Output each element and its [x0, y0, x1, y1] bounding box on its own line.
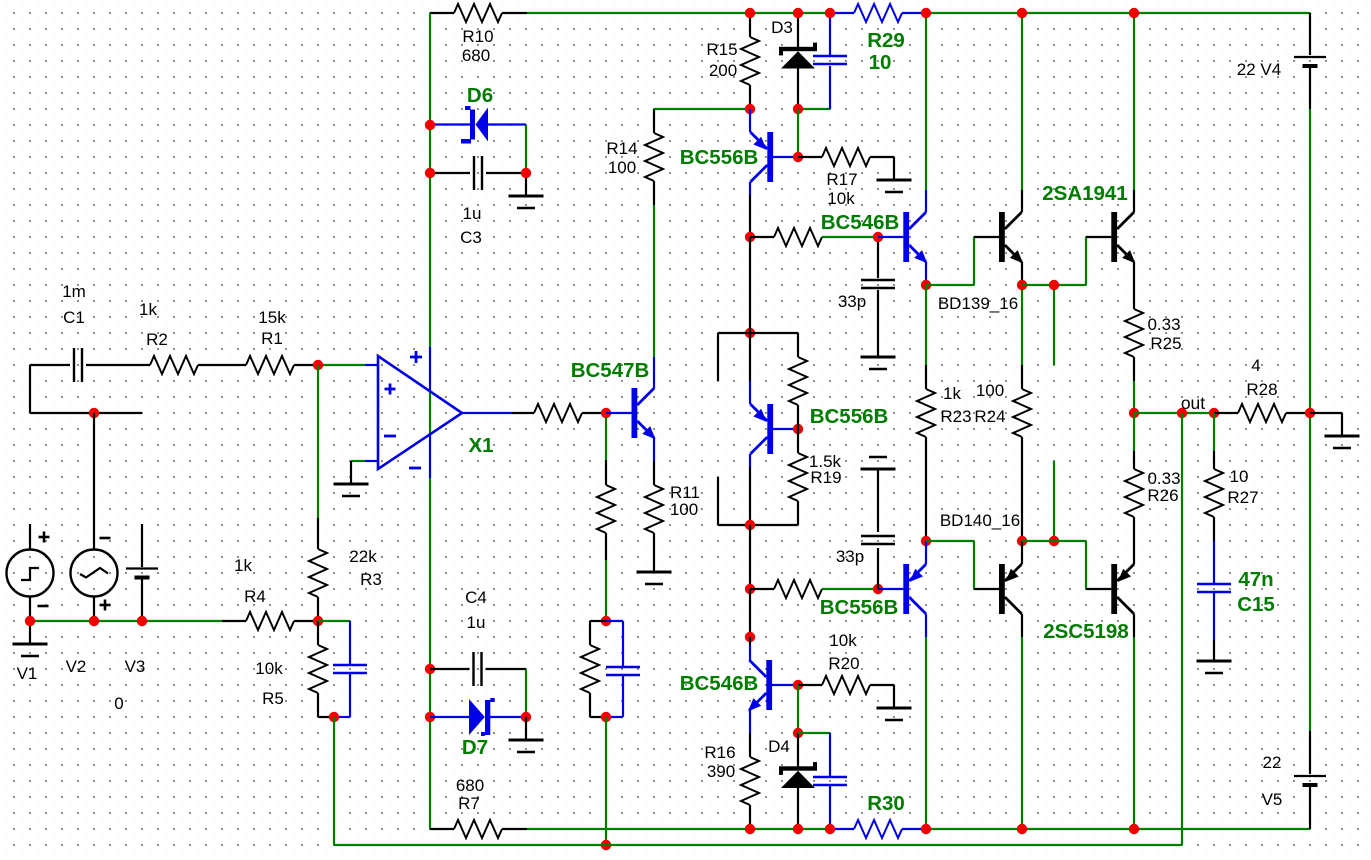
op-amp internal + marking: [385, 384, 396, 395]
wire R20 to ground: [893, 685, 895, 708]
wire R15 top lead: [749, 13, 751, 37]
svg-text:X1: X1: [468, 434, 493, 457]
wire D6 cathode lead: [430, 123, 470, 125]
resistor R10: [454, 4, 502, 22]
junction R15 bottom: [745, 104, 755, 114]
svg-text:C3: C3: [460, 228, 482, 247]
op-amp input pin +: [365, 364, 378, 366]
svg-text:33p: 33p: [838, 292, 866, 311]
wire R29 right lead: [902, 12, 926, 14]
wire top rail to V4: [926, 12, 1310, 14]
wire R26 top lead: [1133, 451, 1135, 469]
wire cap(D3) bottom lead: [829, 66, 831, 109]
junction bias stub lower: [1049, 536, 1059, 546]
svg-text:R29: R29: [867, 29, 905, 52]
svg-text:15k: 15k: [258, 308, 286, 327]
op-amp supply - marking: [409, 467, 421, 470]
wire feedback line upper: [429, 13, 431, 347]
svg-text:2SC5198: 2SC5198: [1043, 620, 1128, 643]
wire op-amp output: [462, 412, 512, 414]
wire R11 top lead: [653, 461, 655, 485]
wire BD140 base riser: [973, 541, 975, 589]
wire resistor branch top: [589, 621, 591, 645]
wire bias stub upper: [1053, 285, 1055, 365]
svg-text:BC547B: BC547B: [571, 359, 650, 382]
wire BD140 emitter lead: [1021, 541, 1023, 564]
wire bracket top: [718, 332, 798, 334]
wire R19 lower bottom lead: [797, 501, 799, 525]
wire R26 to 2SC5198: [1133, 517, 1135, 564]
wire to R/C parallel block: [605, 560, 607, 621]
junction C4 left: [425, 664, 435, 674]
wire -22V rail right: [926, 828, 1310, 830]
wire BC547B emitter lead: [653, 438, 655, 461]
wire top +22V rail: [527, 12, 830, 14]
junction cap(D4)/-rail: [825, 824, 835, 834]
wire R24 bottom lead: [1021, 437, 1023, 541]
wire resistor to BC546B base: [822, 236, 878, 238]
ground (33p lower, inverted): [861, 457, 896, 469]
junction BC546B lower collector: [745, 632, 755, 642]
svg-text:R14: R14: [606, 139, 637, 158]
junction R24 bottom: [1017, 536, 1027, 546]
wire BC546B upper base lead: [878, 236, 903, 238]
capacitor (parallel with D4): [813, 777, 847, 785]
svg-text:R23: R23: [940, 407, 971, 426]
svg-text:V2: V2: [66, 657, 87, 676]
svg-text:1k: 1k: [234, 556, 252, 575]
wire BC547B base lead: [606, 412, 632, 414]
svg-text:R3: R3: [360, 570, 382, 589]
wire cap branch to node: [606, 716, 623, 718]
junction in+ node: [313, 360, 323, 370]
wire cap(D3) top lead: [829, 13, 831, 55]
wire C3 right lead: [486, 172, 526, 174]
svg-text:D6: D6: [467, 84, 493, 107]
wire bracket bottom: [718, 524, 798, 526]
svg-text:1u: 1u: [463, 204, 482, 223]
svg-text:1m: 1m: [62, 282, 86, 301]
resistor R24: [1013, 389, 1031, 437]
svg-text:R2: R2: [146, 330, 168, 349]
op-amp input pin -: [365, 460, 378, 462]
op-amp positive supply pin: [429, 347, 431, 390]
wire R7 left lead: [430, 828, 454, 830]
diode D4 (zener): [779, 762, 817, 788]
wire D4 cathode lead: [797, 733, 799, 767]
resistor R29: [854, 4, 902, 22]
capacitor (parallel with D3): [813, 56, 847, 64]
svg-text:R28: R28: [1246, 380, 1277, 399]
junction BC556B upper base: [793, 152, 803, 162]
capacitor 33p (upper): [861, 280, 895, 288]
svg-text:R26: R26: [1147, 486, 1178, 505]
junction 2SC5198/-rail: [1129, 824, 1139, 834]
junction BD140/-rail: [1017, 824, 1027, 834]
wire to cap branch: [606, 620, 623, 622]
svg-text:100: 100: [976, 381, 1004, 400]
wire BC556B lower base lead: [878, 588, 903, 590]
wire cap(R5) top lead: [349, 621, 351, 665]
resistor R11: [645, 485, 663, 533]
junction V3 output: [137, 616, 147, 626]
wire emitter node down: [925, 285, 927, 365]
junction BC546B lower base: [793, 680, 803, 690]
wire R15 bottom lead: [749, 85, 751, 109]
resistor R23: [917, 389, 935, 437]
svg-text:100: 100: [608, 158, 636, 177]
wire BD139 collector lead: [1021, 190, 1023, 212]
junction BC546B upper base: [873, 232, 883, 242]
capacitor (parallel with R5): [333, 665, 367, 673]
wire R5 bottom lead: [317, 693, 319, 717]
wire R20 left lead: [798, 684, 822, 686]
junction D3 top: [793, 8, 803, 18]
wire BD139 base riser: [973, 237, 975, 285]
wire ground net to R4: [30, 620, 222, 622]
transistor BC546B (lower): [748, 660, 772, 711]
resistor R19 (lower half): [789, 453, 807, 501]
svg-text:R25: R25: [1150, 334, 1181, 353]
wire R16 bottom lead: [749, 805, 751, 829]
wire collector down: [749, 195, 751, 237]
resistor R14: [645, 133, 663, 181]
wire BC556B middle collector lead: [749, 454, 751, 467]
V1 minus sign: [38, 605, 49, 608]
diode D3 (zener): [779, 43, 817, 69]
wire cap(R5) to junction: [334, 716, 350, 718]
wire to BC546B lower: [749, 589, 751, 637]
ground (33p upper): [861, 357, 896, 369]
svg-text:V3: V3: [125, 657, 146, 676]
junction C3 right: [521, 168, 531, 178]
wire BD140 collector to -rail: [1021, 637, 1023, 829]
transistor 2SC5198: [1111, 564, 1134, 614]
wire R28 right lead: [1286, 412, 1310, 414]
wire BD139 emitter lead: [1021, 262, 1023, 285]
wire to base resistor: [512, 412, 534, 414]
wire in+ node down to R3: [317, 365, 319, 518]
svg-text:V5: V5: [1262, 790, 1283, 809]
junction R15 top: [745, 8, 755, 18]
transistor BD139_16: [999, 212, 1023, 263]
svg-text:2SA1941: 2SA1941: [1042, 182, 1127, 205]
svg-text:R10: R10: [462, 27, 493, 46]
wire 2SC5198 base lead: [1086, 588, 1111, 590]
wire cap branch bottom: [622, 675, 624, 717]
wire 33p upper lead: [877, 242, 879, 278]
svg-text:200: 200: [709, 61, 737, 80]
wire R5 top lead: [317, 621, 319, 645]
junction V2 top node: [89, 408, 99, 418]
transistor BC546B (upper): [903, 212, 927, 263]
junction V2 output: [89, 616, 99, 626]
resistor R3: [309, 549, 327, 597]
wire base node to D4: [797, 685, 799, 733]
wire op-amp minus input: [351, 460, 365, 462]
wire 2SC5198 collector to -rail: [1133, 637, 1135, 829]
wire BC546B upper emitter lead: [925, 262, 927, 285]
junction 2SA1941 collector rail: [1129, 8, 1139, 18]
svg-text:1k: 1k: [139, 300, 157, 319]
wire V4 bottom lead: [1309, 68, 1311, 109]
transistor BD140_16: [999, 564, 1022, 614]
wire R17 right lead: [870, 156, 894, 158]
junction D4/-rail: [793, 824, 803, 834]
wire collector to +rail: [925, 13, 927, 190]
junction driver node upper: [745, 232, 755, 242]
capacitor (parallel block): [606, 667, 640, 675]
wire R17 to ground: [893, 157, 895, 180]
diode D6 (zener): [461, 106, 488, 144]
transistor BC556B (lower): [903, 564, 926, 614]
svg-text:C4: C4: [465, 588, 487, 607]
wire R7 right lead: [502, 828, 527, 830]
resistor R25: [1125, 309, 1143, 357]
wire +rail to V4: [1309, 13, 1311, 55]
junction BD139 collector rail: [1017, 8, 1027, 18]
wire down to lower rail: [605, 717, 607, 845]
wire -22V rail left: [527, 828, 830, 830]
wire R27 bottom lead: [1213, 517, 1215, 541]
wire R25 bottom lead: [1133, 357, 1135, 381]
svg-text:out: out: [1181, 393, 1205, 413]
resistor (lower driver): [774, 580, 822, 598]
svg-text:BD140_16: BD140_16: [940, 511, 1020, 530]
wire resistor left lead (lower): [750, 588, 774, 590]
capacitor C1: [74, 348, 82, 382]
capacitor C15: [1197, 584, 1231, 592]
capacitor C3: [474, 156, 482, 190]
transistor 2SA1941: [1111, 212, 1135, 263]
wire BC556B middle emitter lead: [749, 381, 751, 404]
resistor R1: [246, 356, 294, 374]
wire R10 right lead: [502, 12, 527, 14]
wire C15 to ground: [1213, 640, 1215, 661]
junction BC547B base node: [601, 408, 611, 418]
ground (V1): [13, 644, 48, 656]
wire base node down: [605, 418, 607, 460]
wire R4 right lead: [294, 620, 318, 622]
wire C4 left lead: [430, 668, 470, 670]
wire R2 to R1: [198, 364, 246, 366]
junction Vbe multiplier bottom: [745, 520, 755, 530]
wire R24 node to stub: [1022, 540, 1054, 542]
junction D4 top: [793, 728, 803, 738]
resistor R26: [1125, 469, 1143, 517]
svg-text:BC556B: BC556B: [820, 596, 899, 619]
wire to BD140 base: [926, 540, 974, 542]
svg-text:BC556B: BC556B: [680, 146, 759, 169]
ground (C15): [1197, 661, 1232, 673]
svg-text:R19: R19: [810, 468, 841, 487]
ground (R20): [877, 708, 912, 720]
wire V2 bottom lead: [93, 596, 95, 621]
ground (R11): [637, 572, 672, 584]
capacitor C4: [474, 652, 482, 686]
junction BC556B middle base: [793, 424, 803, 434]
wire out to R26: [1133, 413, 1135, 451]
resistor R5: [309, 645, 327, 693]
V2 minus sign: [100, 537, 111, 540]
resistor R15: [741, 37, 759, 85]
wire R14 to R15 node: [654, 108, 750, 110]
svg-text:BC546B: BC546B: [680, 672, 759, 695]
wire to resistor branch: [590, 620, 606, 622]
resistor R2: [150, 356, 198, 374]
wire R14 top lead: [653, 109, 655, 133]
wire out node: [1134, 412, 1214, 414]
wire D3 anode lead: [797, 68, 799, 109]
wire D4 anode lead: [797, 788, 799, 829]
wire C3 left lead: [430, 172, 470, 174]
svg-text:100: 100: [670, 500, 698, 519]
resistor R27: [1205, 469, 1223, 517]
junction out/R27: [1209, 408, 1219, 418]
wire V4-V5 midrail: [1309, 109, 1311, 731]
wire D7 to ground: [525, 717, 527, 740]
svg-text:BC556B: BC556B: [810, 405, 889, 428]
resistor (parallel block): [581, 645, 599, 693]
ground (R28): [1325, 436, 1360, 448]
wire R23 top lead: [925, 365, 927, 389]
wire R16 top lead: [749, 733, 751, 757]
ground (D7): [509, 740, 544, 752]
wire feedback line through op-amp: [429, 390, 431, 433]
junction BD139 emitter: [1017, 280, 1027, 290]
wire 2SA1941 base lead: [1086, 236, 1111, 238]
wire R4 left lead: [222, 620, 246, 622]
junction R28/midrail: [1305, 408, 1315, 418]
junction cap(D3) top: [825, 8, 835, 18]
battery V5: [1294, 776, 1326, 785]
svg-text:680: 680: [456, 776, 484, 795]
junction BC556B/-rail: [921, 824, 931, 834]
svg-text:R15: R15: [706, 40, 737, 59]
svg-text:4: 4: [1251, 356, 1260, 375]
wire 2SC5198 collector lead: [1133, 614, 1135, 637]
svg-text:390: 390: [707, 762, 735, 781]
wire C15 top lead: [1213, 541, 1215, 584]
svg-text:10k: 10k: [255, 659, 283, 678]
junction D7 cathode: [521, 712, 531, 722]
wire R24 top lead: [1021, 365, 1023, 389]
junction collector/+rail: [921, 8, 931, 18]
wire BC556B middle base lead: [773, 428, 798, 430]
wire collector stub: [749, 637, 751, 645]
svg-text:22 V4: 22 V4: [1237, 60, 1281, 79]
svg-text:R30: R30: [867, 792, 905, 815]
wire cap(D4) bottom lead: [829, 786, 831, 829]
wire resistor bottom lead: [605, 533, 607, 560]
wire 33p to ground: [877, 290, 879, 357]
wire resistor left lead: [750, 236, 774, 238]
resistor R28: [1238, 404, 1286, 422]
source V2 (sine): [71, 550, 118, 597]
wire BC556B lower emitter lead: [925, 541, 927, 564]
wire collector to bracket bottom: [749, 467, 751, 525]
ground (op-amp minus): [334, 484, 369, 496]
wire feedback node down: [333, 717, 335, 845]
svg-text:0: 0: [114, 694, 123, 713]
wire 33p lower top lead: [877, 469, 879, 532]
svg-text:22: 22: [1263, 753, 1282, 772]
wire 2SC5198 base riser: [1085, 541, 1087, 589]
wire V1 bottom lead: [29, 596, 31, 621]
wire R14 bottom lead: [653, 181, 655, 205]
wire bracket left upper: [717, 333, 719, 381]
junction Vbe multiplier top: [745, 328, 755, 338]
junction D6 anode: [425, 120, 435, 130]
wire out to R27: [1213, 413, 1215, 451]
svg-text:33p: 33p: [836, 547, 864, 566]
transistor BC556B (upper): [750, 132, 773, 182]
svg-text:10k: 10k: [827, 189, 855, 208]
wire D6 to C3: [525, 125, 527, 173]
wire to ground (op-amp -): [350, 461, 352, 484]
svg-text:10: 10: [869, 51, 892, 74]
wire R25 to out node: [1133, 381, 1135, 413]
resistor (op-amp output): [534, 404, 582, 422]
wire BC546B lower emitter lead: [749, 710, 751, 733]
ground (C3): [509, 196, 544, 208]
svg-text:1u: 1u: [467, 613, 486, 632]
wire R28 to ground: [1310, 412, 1342, 414]
wire BC546B upper collector lead: [925, 190, 927, 212]
svg-text:680: 680: [462, 46, 490, 65]
source V1 (square wave): [7, 550, 54, 597]
wire C4 right lead: [486, 668, 527, 670]
wire BD140 base lead: [974, 588, 999, 590]
op-amp X1: [378, 356, 462, 469]
wire C1 down: [29, 365, 31, 413]
V1 plus sign: [39, 532, 50, 543]
wire R11 to ground: [653, 533, 655, 572]
op-amp supply + marking: [410, 351, 422, 363]
wire cap(R5) bottom lead: [349, 673, 351, 717]
wire R30 right lead: [902, 828, 926, 830]
svg-text:D3: D3: [771, 18, 793, 37]
wire C15 bottom lead: [1213, 592, 1215, 640]
svg-text:R1: R1: [261, 329, 283, 348]
wire driver column upper: [749, 237, 751, 333]
wire BC556B upper base lead: [773, 156, 798, 158]
wire R30 left lead: [830, 828, 854, 830]
wire V3 bottom lead: [141, 579, 143, 621]
wire D3 cathode lead: [797, 13, 799, 47]
wire node in+ to op-amp: [318, 364, 365, 366]
junction D7 anode: [425, 712, 435, 722]
svg-text:V1: V1: [17, 664, 38, 683]
svg-text:C1: C1: [63, 308, 85, 327]
resistor R17: [822, 148, 870, 166]
svg-text:R20: R20: [828, 654, 859, 673]
wire feedback rail: [334, 844, 1182, 846]
resistor R7: [454, 820, 502, 838]
svg-text:R24: R24: [974, 407, 1005, 426]
resistor (base chain): [597, 485, 615, 533]
resistor R19 (upper half): [789, 357, 807, 405]
wire BC547B collector lead: [653, 357, 655, 388]
wire to BC556B middle emitter: [749, 333, 751, 381]
junction bias stub upper: [1049, 280, 1059, 290]
wire BC556B upper collector lead: [749, 182, 751, 195]
svg-text:D7: D7: [462, 736, 488, 759]
svg-text:22k: 22k: [349, 547, 377, 566]
junction R23 bottom: [921, 536, 931, 546]
wire R23 bottom lead: [925, 437, 927, 541]
resistor (upper driver): [774, 228, 822, 246]
